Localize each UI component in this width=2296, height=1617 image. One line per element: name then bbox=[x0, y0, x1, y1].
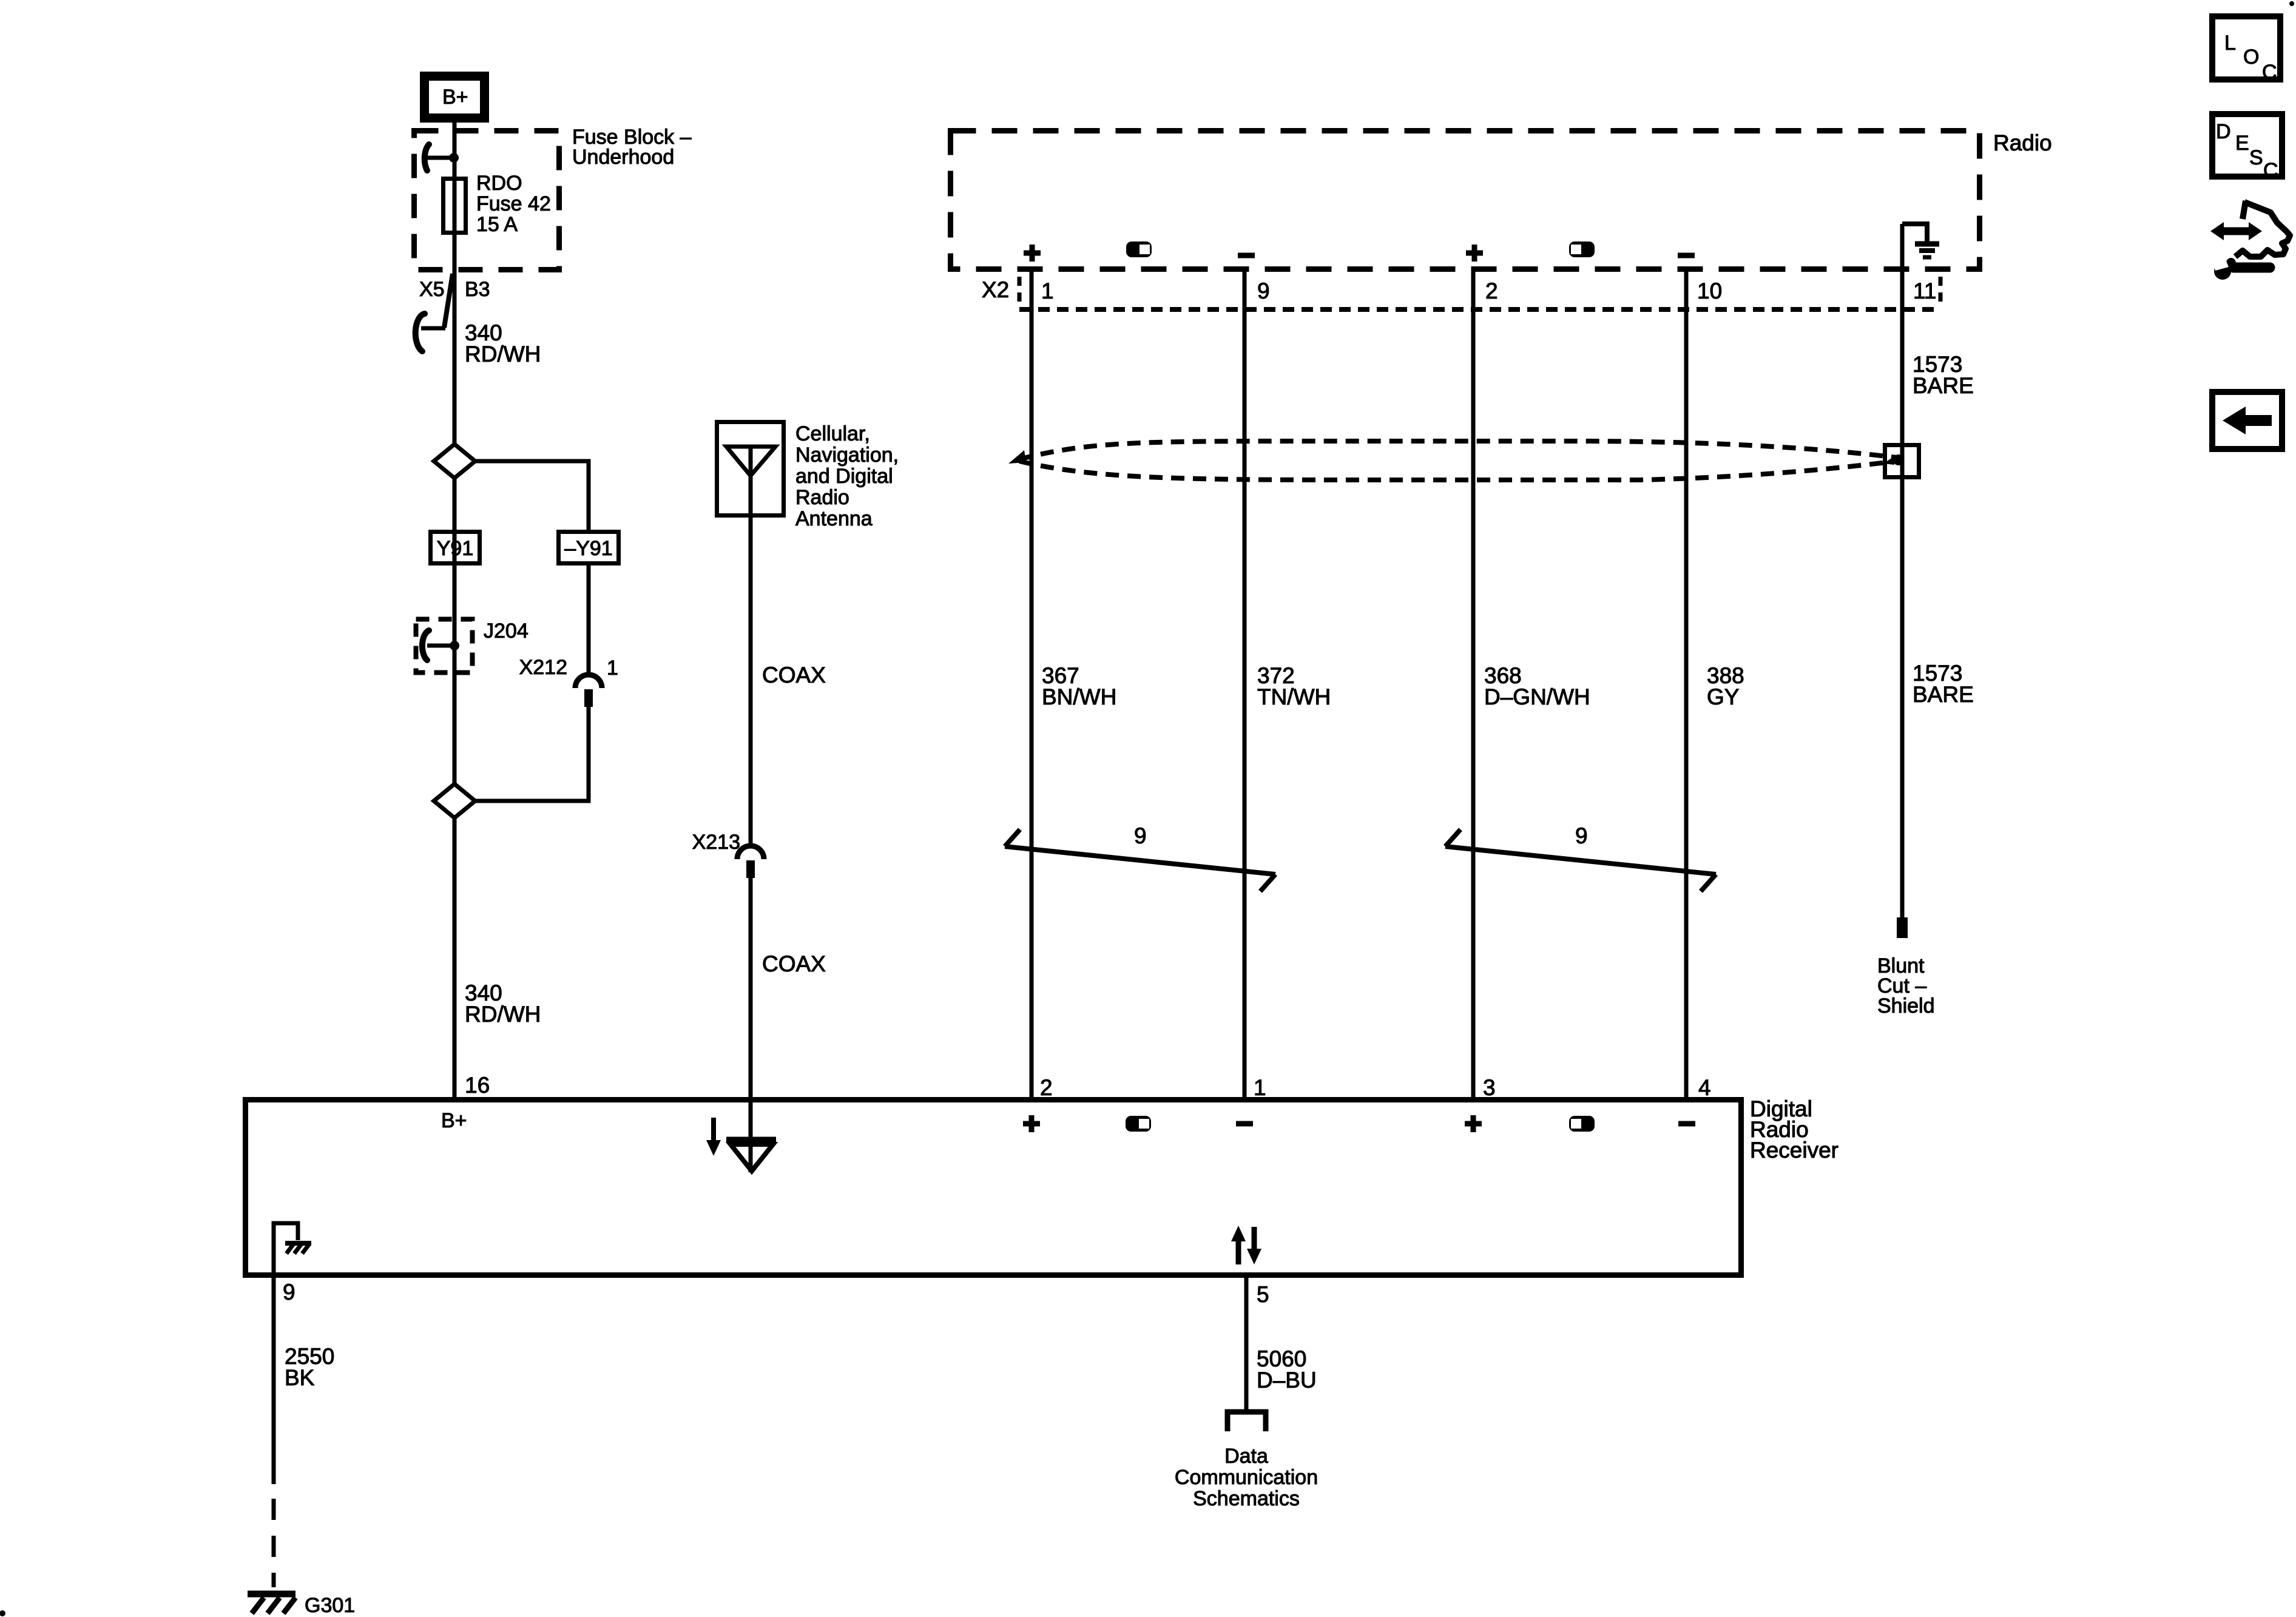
svg-text:D: D bbox=[2216, 120, 2231, 143]
harness marker 9 (right) bbox=[1445, 823, 1716, 891]
svg-text:X2: X2 bbox=[982, 277, 1009, 302]
svg-text:Schematics: Schematics bbox=[1193, 1487, 1300, 1510]
LOC nav icon bbox=[2212, 16, 2280, 84]
connector X5 / B3 bbox=[416, 274, 490, 351]
svg-text:B+: B+ bbox=[442, 86, 468, 109]
svg-text:COAX: COAX bbox=[762, 951, 826, 976]
wire bottom diamond to receiver bbox=[453, 818, 457, 1097]
svg-text:3: 3 bbox=[1483, 1075, 1496, 1100]
svg-text:11: 11 bbox=[1913, 279, 1936, 303]
connector hook, fuse block feed bbox=[425, 144, 459, 170]
svg-text:X212: X212 bbox=[519, 656, 567, 679]
radio pin 10: - bbox=[1678, 253, 1695, 258]
svg-text:9: 9 bbox=[1575, 823, 1588, 848]
harness marker 9 (left) bbox=[1005, 823, 1275, 891]
Radio dashed box bbox=[951, 131, 1980, 269]
splice diamond (top) bbox=[434, 444, 475, 478]
receiver pin 3: + bbox=[1465, 1115, 1482, 1132]
svg-text:10: 10 bbox=[1697, 279, 1722, 303]
svg-text:Y91: Y91 bbox=[437, 537, 474, 560]
svg-text:9: 9 bbox=[1257, 279, 1270, 303]
svg-text:C: C bbox=[2262, 61, 2277, 84]
svg-text:Receiver: Receiver bbox=[1750, 1138, 1838, 1163]
svg-text:5: 5 bbox=[1257, 1282, 1269, 1307]
receiver pin 1: - bbox=[1236, 1121, 1253, 1127]
svg-text:E: E bbox=[2235, 132, 2249, 155]
svg-text:Communication: Communication bbox=[1175, 1466, 1318, 1489]
svg-text:X213: X213 bbox=[692, 831, 740, 854]
svg-text:4: 4 bbox=[1698, 1075, 1711, 1100]
svg-text:9: 9 bbox=[1134, 823, 1147, 848]
svg-text:Data: Data bbox=[1224, 1445, 1268, 1468]
svg-text:RD/WH: RD/WH bbox=[465, 342, 541, 366]
off-page connector bracket bbox=[1227, 1412, 1266, 1431]
speaker wire 2 (radio 9 to receiver 1) bbox=[1243, 272, 1247, 1099]
radio speaker icon (right pair) bbox=[1569, 241, 1595, 257]
svg-text:2: 2 bbox=[1040, 1075, 1053, 1100]
svg-text:Shield: Shield bbox=[1877, 994, 1935, 1018]
B+ power terminal bbox=[425, 76, 485, 118]
svg-text:BK: BK bbox=[285, 1365, 315, 1390]
page corner dots bbox=[2289, 1, 2294, 6]
blunt cut end terminal bbox=[1897, 917, 1908, 938]
shield twisted-pair lens (dashed) bbox=[1008, 441, 1897, 480]
svg-text:C: C bbox=[2263, 159, 2278, 182]
J204 dashed junction box bbox=[416, 619, 528, 673]
connector X213 bbox=[692, 831, 764, 878]
svg-text:Radio: Radio bbox=[795, 486, 849, 509]
service/repair icon (arrow, hand, wrench) bbox=[2210, 201, 2290, 280]
svg-text:B3: B3 bbox=[465, 278, 490, 301]
speaker wire 3 (radio 2 to receiver 3) bbox=[1471, 272, 1476, 1099]
svg-text:Radio: Radio bbox=[1993, 130, 2052, 155]
receiver speaker icon (left pair) bbox=[1126, 1116, 1151, 1132]
svg-text:BARE: BARE bbox=[1913, 373, 1974, 398]
J204 connector hook and junction dot bbox=[422, 630, 459, 660]
receiver data wire 5060 D-BU bbox=[1244, 1275, 1249, 1412]
receiver antenna receptacle bbox=[726, 1099, 776, 1172]
svg-text:9: 9 bbox=[283, 1280, 295, 1305]
svg-text:COAX: COAX bbox=[762, 663, 826, 687]
radio speaker icon (left pair) bbox=[1126, 241, 1152, 257]
speaker wire 4 (radio 10 to receiver 4) bbox=[1684, 272, 1689, 1099]
coax wire antenna to X213 bbox=[749, 516, 753, 846]
wire X212 to bottom branch bbox=[475, 707, 589, 801]
svg-text:2: 2 bbox=[1485, 279, 1498, 303]
svg-text:Underhood: Underhood bbox=[572, 146, 674, 169]
wire main below top diamond bbox=[453, 478, 457, 784]
radio pin 2: + bbox=[1466, 245, 1483, 262]
wire B+ to fuse block to splice diamond bbox=[453, 123, 457, 444]
svg-text:RDO: RDO bbox=[476, 172, 522, 195]
svg-text:1: 1 bbox=[1254, 1075, 1266, 1100]
receiver internal ground symbol (pin 9) bbox=[274, 1223, 311, 1272]
back arrow icon bbox=[2212, 392, 2282, 449]
svg-text:–Y91: –Y91 bbox=[564, 537, 612, 560]
svg-text:X5: X5 bbox=[419, 278, 445, 301]
svg-text:G301: G301 bbox=[305, 1594, 355, 1617]
fuse RDO Fuse 42 15 A bbox=[444, 172, 551, 236]
svg-text:Cellular,: Cellular, bbox=[795, 422, 870, 445]
fuse block - underhood dashed box bbox=[414, 131, 559, 270]
splice diamond (bottom) bbox=[434, 784, 475, 818]
svg-text:15 A: 15 A bbox=[476, 213, 518, 236]
antenna: Cellular, Navigation, and Digital Radio Antenna bbox=[717, 422, 899, 531]
radio pin 1: + bbox=[1024, 245, 1041, 262]
svg-text:B+: B+ bbox=[441, 1109, 467, 1132]
shield drain junction box (blunt cut) bbox=[1883, 445, 1919, 478]
radio internal ground (pin 11) bbox=[1902, 224, 1939, 257]
coax wire X213 to receiver bbox=[749, 878, 753, 1099]
receiver down arrow (signal in) bbox=[706, 1118, 721, 1156]
svg-text:Antenna: Antenna bbox=[795, 507, 873, 530]
svg-text:16: 16 bbox=[465, 1073, 490, 1098]
connector X212 pin 1 bbox=[519, 656, 618, 707]
svg-text:O: O bbox=[2243, 46, 2259, 69]
svg-text:BN/WH: BN/WH bbox=[1042, 684, 1116, 709]
Y91 box bbox=[431, 532, 480, 564]
svg-text:1: 1 bbox=[1041, 279, 1054, 303]
svg-text:GY: GY bbox=[1707, 684, 1739, 709]
wire branch right from top diamond bbox=[475, 461, 589, 530]
svg-text:1: 1 bbox=[607, 657, 618, 680]
ground G301 bbox=[248, 1594, 355, 1617]
svg-text:D–GN/WH: D–GN/WH bbox=[1484, 684, 1590, 709]
receiver pin 2: + bbox=[1023, 1115, 1040, 1132]
Digital Radio Receiver box bbox=[246, 1100, 1741, 1275]
svg-text:J204: J204 bbox=[484, 619, 528, 643]
receiver ground wire 2550 BK bbox=[272, 1275, 276, 1484]
wire -Y91 to X212 bbox=[587, 565, 591, 675]
svg-text:RD/WH: RD/WH bbox=[465, 1002, 541, 1027]
svg-text:S: S bbox=[2249, 146, 2263, 169]
svg-text:TN/WH: TN/WH bbox=[1257, 684, 1331, 709]
DESC nav icon bbox=[2212, 114, 2282, 182]
svg-text:L: L bbox=[2224, 32, 2236, 55]
X2 connector label and dotted bracket bbox=[982, 277, 1940, 309]
svg-text:Navigation,: Navigation, bbox=[795, 444, 899, 467]
receiver data arrows (pin 5) bbox=[1231, 1226, 1261, 1264]
speaker wire 1 (radio 1 to receiver 2) bbox=[1030, 272, 1034, 1099]
radio pin 9: - bbox=[1238, 253, 1255, 258]
svg-text:and Digital: and Digital bbox=[795, 465, 893, 488]
shield wire 1573 BARE bbox=[1900, 224, 1905, 917]
svg-text:BARE: BARE bbox=[1913, 682, 1974, 707]
-Y91 box bbox=[559, 532, 619, 564]
svg-text:Fuse 42: Fuse 42 bbox=[476, 192, 551, 215]
receiver pin 4: - bbox=[1678, 1121, 1695, 1127]
svg-text:D–BU: D–BU bbox=[1257, 1368, 1317, 1393]
receiver speaker icon (right pair) bbox=[1569, 1116, 1595, 1132]
